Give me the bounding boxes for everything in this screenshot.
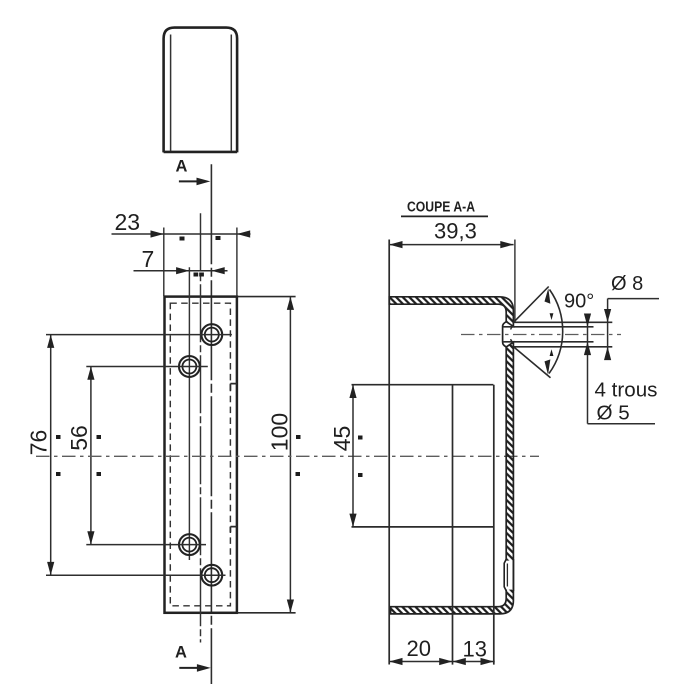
cap section hatched body: lower wall + bottom band [391,342,514,614]
svg-text:100: 100 [267,413,293,451]
dim 39,3 right ext line [514,240,516,323]
dim d8 vertical line [607,299,609,359]
section line A-A vertical [210,164,212,684]
d5 arrows (outside) [584,314,591,327]
dim 56 arrows [87,367,94,380]
svg-text:45: 45 [329,426,355,452]
d8 arrows (outside) [604,309,611,322]
dim 100 arrows [287,297,294,310]
H1 horizontal centerline / 76 top extension [46,334,232,336]
dim 23 ext lines [164,228,237,297]
dim 7 line [134,270,228,272]
countersink bulge outline [503,322,507,347]
slot left jogged edge [504,559,506,590]
H4 horizontal centerline / 76 bottom extension [46,574,226,576]
svg-text:39,3: 39,3 [434,219,477,244]
dim 23 line [112,233,251,235]
dim 56 line [90,367,92,545]
cap inner right bend line [230,35,232,152]
left edge / extension line full height [388,240,390,665]
cap inner left bend line [170,35,172,152]
svg-text:13: 13 [463,637,487,662]
svg-text:56: 56 [66,425,92,451]
H3 horizontal centerline / 56 bottom extension [86,544,206,546]
notch 2 right edge [230,527,237,533]
slot outer edge [512,559,514,591]
svg-text:76: 76 [26,430,52,456]
dim 7 arrows (outside) [176,267,189,274]
dim 100 line [289,297,291,613]
hole detail centerline [461,334,621,336]
title underline [401,215,488,217]
svg-text:20: 20 [407,636,431,661]
dim 76 line [50,335,52,576]
cap bottom edge [164,151,238,154]
bore hole lines (d5) [503,327,593,342]
90 deg arc [549,290,563,374]
dim 39,3 arrows [389,241,402,248]
svg-text:90°: 90° [564,291,594,313]
cone line lower [514,347,551,378]
svg-text:Ø 5: Ø 5 [597,402,630,425]
countersink dia lines (d8) [514,322,613,347]
d8 leader line [608,298,659,300]
plate outline [165,297,237,613]
d5 label underline [588,423,656,425]
dim line 20/13 [389,661,495,663]
dim 45 arrows [349,385,356,398]
holes column centerline [188,267,190,560]
H2 horizontal centerline / 56 top extension [86,366,208,368]
svg-text:4 trous: 4 trous [595,379,658,402]
dim 45 line [352,385,354,527]
hole H4 [201,565,222,586]
dim 76 arrows [47,335,54,348]
section arrow bottom [179,667,199,669]
white-out slot region on right wall [503,561,512,590]
inner box top line [352,384,494,386]
svg-text:Ø 8: Ø 8 [611,273,643,295]
arc arrowheads [545,288,551,304]
slot inner line [506,564,508,587]
svg-text:A: A [175,644,187,662]
dim 39,3 line [389,244,513,246]
dim 23 arrows (outside) [151,230,164,237]
plate bottom edge extension to 100 dim [237,612,296,614]
svg-text:A: A [176,158,188,176]
svg-text:7: 7 [142,246,155,272]
hole H3 [179,534,200,555]
notch 1 right edge [230,384,237,391]
svg-text:23: 23 [115,209,141,235]
arrows 20/13 [389,658,402,665]
section arrow top [179,180,199,182]
hole H2 [179,356,200,377]
plate top edge extension to 100 dim [237,296,296,298]
cap outline [164,28,238,153]
hidden inset rect dashed [170,303,230,606]
inner vertical line right [493,385,495,665]
cap section hatched body: top band + upper wall [389,297,513,327]
countersink mouth lips [511,326,514,342]
inner vertical line mid [452,385,454,665]
dim d5 vertical line [587,314,589,424]
cone line upper [514,287,549,323]
inner box bottom line [352,526,494,528]
svg-text:COUPE A-A: COUPE A-A [407,200,475,216]
plate vertical centerline [200,213,202,642]
hole H1 [201,324,222,345]
